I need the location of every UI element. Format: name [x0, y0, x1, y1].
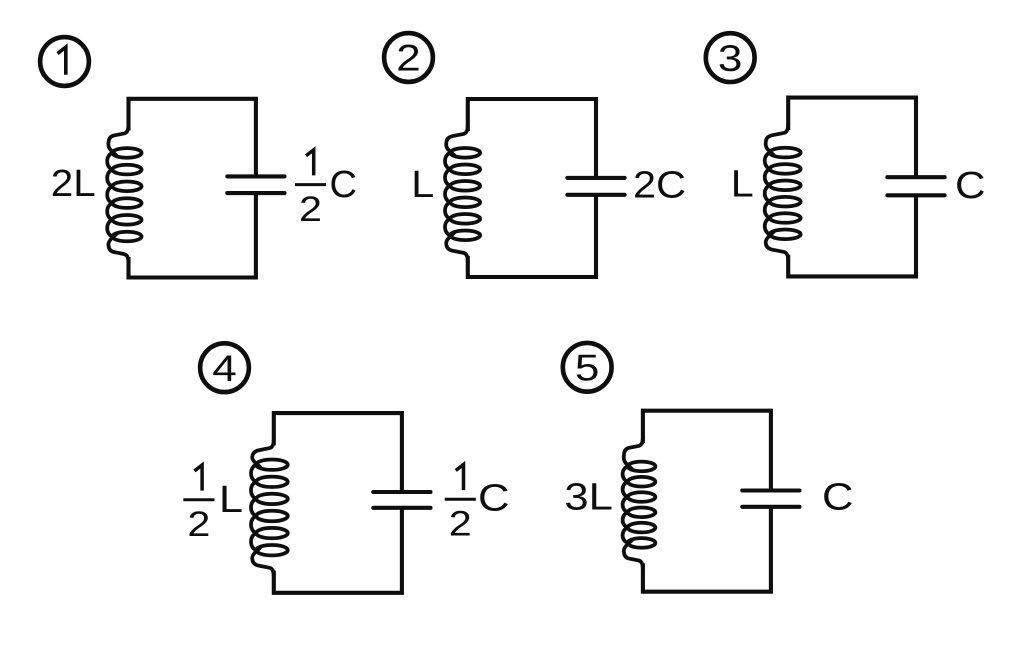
circuit 2 number marker (circled 2): [384, 33, 433, 82]
capacitor value label "1/2 C" (circuit 1): [295, 150, 357, 229]
circuit 5 number marker (circled 5): [563, 343, 612, 392]
wire: right lower + bottom side + left lower stub (circuit 4): [274, 508, 402, 593]
wire: left upper stub + top side + right upper (circuit 1): [129, 99, 256, 177]
wire: left upper stub + top side + right upper (circuit 4): [274, 413, 402, 492]
svg-text:2C: 2C: [633, 165, 686, 207]
svg-text:3: 3: [718, 37, 743, 79]
svg-text:2: 2: [449, 505, 472, 544]
svg-text:L: L: [731, 163, 754, 205]
svg-text:C: C: [955, 165, 986, 207]
capacitor plates (circuit 1): [227, 176, 284, 193]
wire: left upper stub + top side + right upper (circuit 2): [468, 99, 596, 178]
inductor value label "1/2 L" (circuit 4): [183, 465, 243, 544]
inductor coil (circuit 4): [251, 439, 288, 577]
svg-text:C: C: [330, 164, 358, 206]
capacitor plates (circuit 3): [887, 177, 944, 195]
svg-text:5: 5: [575, 347, 600, 389]
wire: left upper stub + top side + right upper (circuit 3): [788, 98, 916, 178]
svg-text:3L: 3L: [564, 477, 613, 519]
inductor coil (circuit 3): [765, 124, 801, 261]
svg-text:4: 4: [212, 347, 237, 389]
inductor coil (circuit 2): [445, 125, 480, 262]
capacitor plates (circuit 2): [567, 178, 624, 195]
inductor coil (circuit 5): [623, 437, 656, 569]
circuit 4 number marker (circled 4): [200, 343, 249, 392]
wire: right lower + bottom side + left lower stub (circuit 3): [788, 195, 916, 276]
svg-text:2: 2: [396, 37, 421, 79]
svg-text:2: 2: [299, 190, 322, 229]
wire: right lower + bottom side + left lower stub (circuit 1): [129, 193, 256, 277]
capacitor value label "1/2 C" (circuit 4): [445, 465, 510, 544]
wire: left upper stub + top side + right upper (circuit 5): [643, 411, 771, 491]
svg-text:L: L: [411, 164, 434, 206]
inductor coil (circuit 1): [107, 125, 141, 264]
circuit 3 number marker (circled 3): [706, 33, 755, 82]
svg-text:C: C: [478, 478, 510, 520]
capacitor plates (circuit 5): [742, 491, 799, 507]
svg-text:C: C: [822, 477, 854, 519]
capacitor plates (circuit 4): [373, 492, 430, 508]
circuit 1 number marker (circled 1): [40, 37, 89, 86]
svg-text:L: L: [219, 479, 243, 521]
wire: right lower + bottom side + left lower stub (circuit 2): [468, 195, 596, 277]
svg-text:2L: 2L: [51, 163, 96, 205]
wire: right lower + bottom side + left lower stub (circuit 5): [643, 507, 771, 592]
svg-text:2: 2: [187, 505, 210, 544]
